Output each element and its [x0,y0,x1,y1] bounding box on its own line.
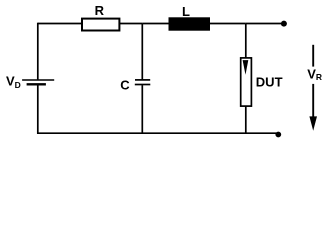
svg-text:DUT: DUT [256,75,283,90]
capacitor C top plate [135,79,150,81]
V_R arrowhead [309,116,317,130]
wire: left branch, source down to bottom rail [37,85,39,134]
wire: top rail, left corner to resistor [38,23,82,25]
V_R arrow upper segment [312,45,314,67]
DUT package box [241,58,252,106]
svg-text:C: C [120,78,130,93]
resistor R [82,19,119,31]
wire: capacitor branch lower [141,85,143,133]
wire: top rail, resistor to capacitor junction [120,23,142,25]
wire: top rail, inductor to DUT junction [210,23,246,25]
battery V_D short plate [27,83,46,85]
capacitor C bottom plate [135,84,151,86]
svg-text:L: L [182,4,190,19]
svg-text:VD: VD [6,74,21,90]
DUT current arrow [243,60,249,75]
node: bottom terminal dot [275,132,281,138]
wire: bottom rail [37,132,277,134]
svg-text:R: R [95,3,105,18]
inductor L (solid bar) [169,17,211,30]
junction: capacitor branch tap [142,23,168,25]
wire: capacitor branch upper [141,24,143,80]
wire: DUT branch upper [245,24,247,61]
svg-text:VR: VR [307,66,322,82]
battery V_D long plate [22,79,54,81]
node: top output terminal dot [281,21,287,27]
V_R arrow shaft [312,84,314,117]
wire: left branch, top rail down to source [37,23,39,80]
wire: DUT branch lower [245,106,247,133]
wire: top rail, DUT junction to output terminal [246,23,281,25]
